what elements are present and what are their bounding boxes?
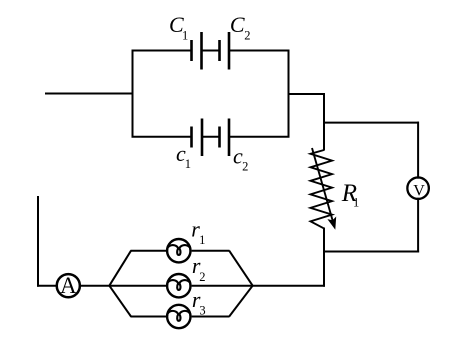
wire capacitor-bank left edge [132, 51, 134, 137]
wire voltmeter right lower [417, 198, 419, 253]
wire lower branch diagonal left [109, 285, 131, 316]
wire middle branch right [192, 285, 253, 287]
wire capacitor-bank right edge [288, 51, 290, 137]
wire terminal to ammeter [37, 285, 58, 287]
wire bottom branch left segment [132, 136, 192, 138]
wire bottom branch right segment [229, 136, 290, 138]
wire output to resistor bottom [252, 285, 325, 287]
ammeter A [57, 273, 80, 298]
wire below resistor to bottom node [323, 228, 325, 287]
svg-text:A: A [60, 273, 77, 298]
wire upper branch right horizontal [192, 250, 230, 252]
svg-text:1: 1 [185, 157, 191, 171]
wire between C1 and C2 [202, 50, 220, 52]
wire top branch left segment [132, 50, 192, 52]
wire voltmeter right upper [417, 122, 419, 179]
wire upper branch diagonal left [109, 251, 131, 287]
svg-text:2: 2 [199, 270, 205, 284]
wire upper branch left horizontal [131, 250, 167, 252]
svg-text:1: 1 [353, 196, 359, 210]
wire between c1 and c2 [202, 136, 220, 138]
resistor R1 (rheostat zigzag with arrow) [311, 148, 337, 230]
capacitor C2 [220, 32, 230, 70]
capacitor C1 [192, 32, 202, 70]
svg-text:1: 1 [182, 29, 188, 43]
svg-text:2: 2 [242, 160, 248, 174]
wire lower branch left horizontal [131, 316, 167, 318]
svg-text:V: V [413, 183, 425, 200]
capacitor c1 [192, 119, 203, 157]
wire middle branch left [109, 285, 166, 287]
lamp r2 [167, 274, 190, 297]
svg-text:1: 1 [199, 233, 205, 247]
wire vertical down to resistor [323, 93, 325, 151]
wire top branch right segment [229, 50, 290, 52]
capacitor c2 [220, 119, 230, 157]
svg-text:3: 3 [199, 303, 205, 317]
wire lower branch diagonal right [229, 285, 253, 316]
wire bottom-left terminal [37, 196, 39, 287]
voltmeter V [407, 177, 429, 199]
wire right lead from capacitor bank [289, 93, 326, 95]
wire lower branch right horizontal [192, 316, 230, 318]
wire voltmeter bottom [323, 251, 419, 253]
wire ammeter to junction [80, 285, 111, 287]
svg-text:2: 2 [244, 28, 250, 42]
lamp r3 [167, 305, 190, 328]
wire upper branch diagonal right [229, 251, 253, 287]
wire voltmeter top [323, 122, 419, 124]
wire left lead [45, 93, 133, 95]
lamp r1 [167, 239, 190, 262]
svg-text:C: C [230, 12, 245, 37]
